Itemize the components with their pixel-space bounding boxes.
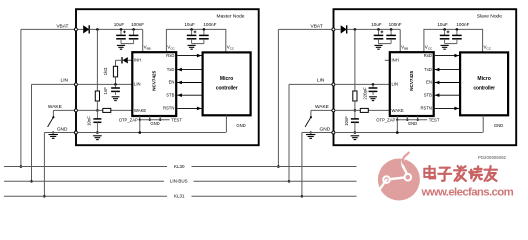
svg-text:KL30: KL30 bbox=[174, 164, 185, 169]
wire drop to LIN-BUS node1 bbox=[31, 84, 33, 181]
bus KL30 bbox=[4, 166, 167, 168]
diode D1 reverse-battery bbox=[83, 25, 89, 33]
svg-text:Master Node: Master Node bbox=[217, 14, 245, 20]
pin stub GND transceiver node2 bbox=[406, 116, 408, 120]
wire caps common (Vcc) node1 bbox=[192, 43, 204, 45]
svg-text:LIN: LIN bbox=[392, 82, 399, 87]
capacitor 100nF (Vbb) node2 bbox=[390, 29, 392, 35]
capacitor LIN filter node1 bbox=[115, 84, 117, 88]
node WAKE terminal node1 bbox=[74, 109, 77, 112]
svg-text:Micro: Micro bbox=[220, 76, 233, 82]
ground Vbb caps node2 bbox=[374, 44, 382, 46]
junction cap 10uF Vcc node2 bbox=[443, 28, 446, 31]
wire LIN to transceiver node2 bbox=[335, 83, 390, 85]
wire caps common (Vbb) node2 bbox=[379, 43, 392, 45]
svg-text:RSTN: RSTN bbox=[420, 106, 431, 111]
wire VBAT lead-in node1 bbox=[21, 28, 76, 30]
wire Vcc rail node2 bbox=[424, 29, 483, 52]
signal EN node1 bbox=[177, 82, 201, 84]
svg-text:WAKE: WAKE bbox=[392, 108, 404, 113]
wire caps common (Vbb) node1 bbox=[121, 43, 134, 45]
svg-text:Micro: Micro bbox=[477, 76, 490, 82]
wire drop to KL30 node1 bbox=[20, 29, 22, 166]
watermark text you bbox=[485, 166, 497, 181]
junction cap 100nF Vcc node1 bbox=[203, 28, 206, 31]
svg-text:LIN-BUS: LIN-BUS bbox=[170, 179, 188, 184]
wire OTP to gnd rail node1 bbox=[139, 120, 141, 133]
capacitor 100nF (Vcc) node2 bbox=[456, 29, 458, 35]
capacitor 10nF wake node1 bbox=[96, 110, 98, 119]
resistor wake pull-up node2 bbox=[353, 91, 357, 101]
pin stub OTP_ZAP node1 bbox=[139, 116, 141, 120]
capacitor 10uF (Vcc) node1 bbox=[191, 29, 193, 35]
wire drop to KL30 node2 bbox=[277, 29, 279, 166]
svg-text:10nF: 10nF bbox=[344, 116, 349, 126]
wire GND rail node1 bbox=[77, 132, 225, 134]
junction cap 100nF Vbb node2 bbox=[390, 28, 393, 31]
node VBAT terminal node1 bbox=[74, 28, 77, 31]
svg-text:VBB: VBB bbox=[401, 45, 408, 51]
signal STB node2 bbox=[435, 94, 459, 96]
ground switch node1 bbox=[52, 131, 54, 133]
wire bottom pins common node2 bbox=[397, 119, 427, 121]
svg-text:TxD: TxD bbox=[167, 67, 175, 72]
svg-text:WAKE: WAKE bbox=[48, 104, 62, 110]
wire VBAT to diode node1 bbox=[77, 28, 83, 30]
capacitor 100nF (Vcc) node1 bbox=[203, 29, 205, 35]
wire bottom pins common node1 bbox=[140, 119, 170, 121]
node WAKE terminal node2 bbox=[332, 109, 335, 112]
wire micro GND stub node2 bbox=[482, 115, 484, 132]
svg-text:PD200906092: PD200906092 bbox=[478, 155, 507, 160]
svg-text:RxD: RxD bbox=[166, 53, 174, 58]
signal RxD node2 bbox=[435, 55, 459, 57]
node GND terminal node1 bbox=[74, 131, 77, 134]
signal STB node1 bbox=[177, 94, 201, 96]
svg-text:OTP_ZAP: OTP_ZAP bbox=[119, 117, 138, 122]
svg-text:GND: GND bbox=[320, 127, 331, 133]
bus LIN-BUS bbox=[4, 180, 164, 182]
svg-text:EN: EN bbox=[426, 80, 432, 85]
micro controller node1 bbox=[203, 52, 251, 115]
watermark text zi bbox=[438, 168, 451, 181]
junction cap 100nF Vcc node2 bbox=[456, 28, 459, 31]
svg-text:VCC: VCC bbox=[227, 45, 235, 51]
junction cap 10uF Vbb node2 bbox=[377, 28, 380, 31]
wire OTP to gnd rail node2 bbox=[396, 120, 398, 133]
wire WAKE to transceiver node2 bbox=[335, 109, 390, 111]
wire INH stub open node2 bbox=[385, 59, 390, 61]
node GND terminal node2 bbox=[332, 131, 335, 134]
capacitor 10uF (Vbb) node2 bbox=[378, 29, 380, 35]
svg-text:controller: controller bbox=[473, 85, 495, 91]
wire drop to KL31 node2 bbox=[301, 133, 303, 197]
junction gnd rail / wake cap node2 bbox=[354, 131, 357, 134]
signal RxD node1 bbox=[177, 55, 201, 57]
watermark logo elecfans bbox=[378, 159, 420, 201]
svg-text:1nF: 1nF bbox=[103, 87, 108, 95]
signal TxD node2 bbox=[435, 69, 459, 71]
svg-text:NCV7425: NCV7425 bbox=[409, 70, 414, 90]
wire drop to KL31 node1 bbox=[43, 133, 45, 197]
ground Vcc caps node1 bbox=[188, 44, 196, 46]
node LIN terminal node1 bbox=[74, 83, 77, 86]
ground wake cap node1 bbox=[93, 135, 102, 137]
junction cap 10uF Vcc node1 bbox=[190, 28, 193, 31]
ground Vcc caps node2 bbox=[441, 44, 449, 46]
resistor 1k master termination bbox=[115, 60, 117, 66]
svg-text:GND: GND bbox=[236, 123, 245, 128]
junction LIN / filter cap node1 bbox=[114, 83, 117, 86]
capacitor LIN filter node2 bbox=[372, 84, 374, 88]
node LIN terminal node2 bbox=[332, 83, 335, 86]
svg-text:1kΩ: 1kΩ bbox=[103, 67, 108, 76]
junction cap 10uF Vbb node1 bbox=[120, 28, 123, 31]
wire Vbb rail node2 bbox=[347, 28, 401, 30]
svg-text:STB: STB bbox=[166, 92, 174, 97]
watermark text dian bbox=[424, 166, 435, 178]
svg-text:10uF: 10uF bbox=[184, 22, 195, 27]
resistor wake series node1 bbox=[103, 108, 111, 112]
svg-text:NCV7425: NCV7425 bbox=[152, 70, 157, 90]
node VBAT terminal node2 bbox=[332, 28, 335, 31]
ground LIN filter cap node2 bbox=[369, 96, 377, 98]
transceiver U2 NCV7425 bbox=[390, 52, 434, 116]
svg-text:STB: STB bbox=[424, 92, 432, 97]
svg-text:VCC: VCC bbox=[484, 45, 492, 51]
capacitor 10uF (Vbb) node1 bbox=[120, 29, 122, 35]
ground switch node2 bbox=[310, 131, 312, 133]
svg-text:VCC: VCC bbox=[425, 45, 433, 51]
transceiver U1 NCV7425 bbox=[132, 52, 176, 116]
bus KL31 bbox=[4, 195, 167, 197]
resistor wake pull-up node1 bbox=[95, 91, 99, 101]
svg-text:VBB: VBB bbox=[144, 45, 151, 51]
switch wake node1 bbox=[52, 110, 54, 116]
node box Master Node bbox=[76, 9, 259, 145]
svg-text:10nF: 10nF bbox=[87, 116, 92, 126]
svg-text:RSTN: RSTN bbox=[163, 106, 174, 111]
ground Vbb caps node1 bbox=[117, 44, 125, 46]
wire WAKE to transceiver node1 bbox=[77, 109, 132, 111]
junction Vbb rail / wake branch node2 bbox=[354, 28, 357, 31]
signal RSTN node2 bbox=[435, 107, 459, 109]
svg-text:INH: INH bbox=[392, 58, 399, 63]
svg-text:TEST: TEST bbox=[171, 117, 182, 122]
svg-text:100nF: 100nF bbox=[203, 22, 216, 27]
ground LIN filter cap node1 bbox=[112, 96, 120, 98]
wire WAKE lead-in node1 bbox=[53, 109, 76, 111]
wire VBAT lead-in node2 bbox=[278, 28, 333, 30]
capacitor 100nF (Vbb) node1 bbox=[133, 29, 135, 35]
svg-text:100nF: 100nF bbox=[456, 22, 469, 27]
pin stub TEST node1 bbox=[159, 116, 161, 120]
svg-text:WAKE: WAKE bbox=[134, 108, 146, 113]
svg-text:www.elecfans.com: www.elecfans.com bbox=[421, 187, 514, 199]
svg-text:INH: INH bbox=[134, 58, 141, 63]
wire caps common (Vcc) node2 bbox=[445, 43, 457, 45]
wire LIN to transceiver node1 bbox=[77, 83, 132, 85]
svg-text:GND: GND bbox=[408, 121, 417, 126]
svg-text:controller: controller bbox=[216, 85, 238, 91]
wire WAKE lead-in node2 bbox=[311, 109, 334, 111]
svg-text:220pF: 220pF bbox=[362, 87, 367, 100]
capacitor 10uF (Vcc) node2 bbox=[444, 29, 446, 35]
wire GND lead-in node1 bbox=[44, 132, 76, 134]
resistor wake series node2 bbox=[360, 108, 368, 112]
switch wake node2 bbox=[310, 110, 312, 116]
svg-text:LIN: LIN bbox=[134, 82, 141, 87]
wire wake pull-up branch node2 bbox=[354, 29, 356, 91]
node box Slave Node bbox=[334, 9, 517, 145]
svg-text:VBAT: VBAT bbox=[56, 24, 68, 30]
svg-text:TEST: TEST bbox=[429, 117, 440, 122]
wire Vbb pin stub node1 bbox=[142, 29, 144, 52]
wire Vbb rail node1 bbox=[89, 28, 143, 30]
svg-text:10uF: 10uF bbox=[371, 22, 382, 27]
svg-text:KL31: KL31 bbox=[174, 194, 185, 199]
svg-text:10uF: 10uF bbox=[114, 22, 125, 27]
micro controller node2 bbox=[460, 52, 508, 115]
svg-text:TxD: TxD bbox=[424, 67, 432, 72]
junction cap 100nF Vbb node1 bbox=[132, 28, 135, 31]
capacitor 10nF wake node2 bbox=[354, 110, 356, 119]
diode D2 reverse-battery bbox=[341, 25, 347, 33]
junction gnd rail / wake cap node1 bbox=[96, 131, 99, 134]
signal RSTN node1 bbox=[177, 107, 201, 109]
junction wake line / pull-up node2 bbox=[354, 109, 357, 112]
wire micro GND stub node1 bbox=[225, 115, 227, 132]
svg-text:OTP_ZAP: OTP_ZAP bbox=[376, 117, 395, 122]
watermark text fa bbox=[454, 166, 466, 181]
diode D2 INH-LIN master bbox=[123, 57, 128, 63]
wire LIN lead-in node2 bbox=[289, 83, 333, 85]
wire Vbb pin stub node2 bbox=[399, 29, 401, 52]
watermark text shao bbox=[469, 166, 482, 181]
wire GND lead-in node2 bbox=[302, 132, 334, 134]
svg-text:VBAT: VBAT bbox=[311, 24, 323, 30]
wire INH stub node1 bbox=[128, 59, 133, 61]
svg-text:Slave Node: Slave Node bbox=[477, 14, 503, 20]
svg-text:GND: GND bbox=[57, 127, 68, 133]
svg-text:EN: EN bbox=[169, 80, 175, 85]
wire drop to LIN-BUS node2 bbox=[288, 84, 290, 181]
signal TxD node1 bbox=[177, 69, 201, 71]
svg-text:GND: GND bbox=[494, 123, 503, 128]
wire wake pull-up branch node1 bbox=[96, 29, 98, 91]
svg-text:100nF: 100nF bbox=[131, 22, 144, 27]
junction LIN / filter cap node2 bbox=[372, 83, 375, 86]
wire VBAT to diode node2 bbox=[335, 28, 341, 30]
wire LIN lead-in node1 bbox=[32, 83, 76, 85]
svg-text:100nF: 100nF bbox=[389, 22, 402, 27]
wire diode cathode to resistor node1 bbox=[116, 59, 123, 61]
pin stub GND transceiver node1 bbox=[149, 116, 151, 120]
svg-text:WAKE: WAKE bbox=[315, 104, 329, 110]
svg-text:10uF: 10uF bbox=[437, 22, 448, 27]
svg-text:VCC: VCC bbox=[167, 45, 175, 51]
svg-text:LIN: LIN bbox=[61, 78, 69, 84]
wire GND rail node2 bbox=[335, 132, 483, 134]
ground wake cap node2 bbox=[351, 135, 360, 137]
pin stub TEST node2 bbox=[417, 116, 419, 120]
pin stub OTP_ZAP node2 bbox=[396, 116, 398, 120]
svg-text:RxD: RxD bbox=[424, 53, 432, 58]
signal EN node2 bbox=[435, 82, 459, 84]
svg-text:GND: GND bbox=[150, 121, 159, 126]
svg-text:LIN: LIN bbox=[317, 78, 325, 84]
junction wake line / pull-up node1 bbox=[96, 109, 99, 112]
wire Vcc rail node1 bbox=[166, 29, 225, 52]
junction Vbb rail / wake branch node1 bbox=[96, 28, 99, 31]
